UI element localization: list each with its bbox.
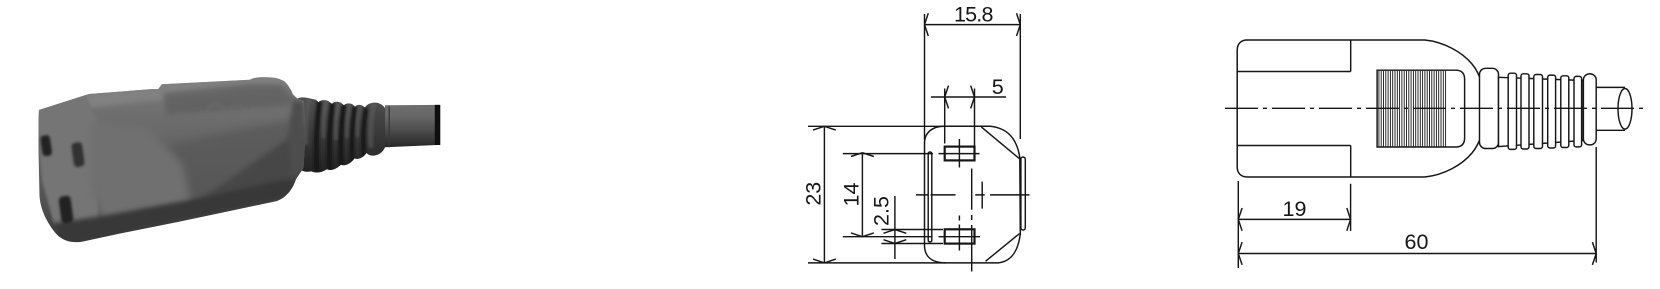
rib 4 xyxy=(1548,75,1556,148)
photo: lower-right dark region xyxy=(190,124,306,215)
photo: lower pin slot xyxy=(59,196,73,224)
dim 5 line xyxy=(931,96,1006,98)
dim 14 line xyxy=(861,153,863,237)
dim 23 extension lines (merge with top/bottom edges) xyxy=(808,126,946,263)
dim 23 line xyxy=(823,126,825,263)
photo: mid body lighter panel xyxy=(90,120,192,225)
outline: plug body side view xyxy=(1237,40,1485,177)
svg-text:19: 19 xyxy=(1283,197,1307,221)
rib 6 xyxy=(1574,76,1582,146)
centerline xyxy=(1225,107,1643,109)
dim 15.8 extension lines xyxy=(925,14,1021,140)
strain relief core xyxy=(1499,77,1584,146)
photo: top face highlight xyxy=(37,75,290,118)
svg-text:5: 5 xyxy=(992,75,1004,99)
svg-text:15.8: 15.8 xyxy=(954,2,993,26)
rib 2 xyxy=(1521,74,1529,149)
shroud step lines xyxy=(1237,72,1351,146)
pin column centerline xyxy=(958,139,960,251)
svg-text:60: 60 xyxy=(1405,230,1429,254)
photo: cable xyxy=(385,105,440,147)
photo: right-half darkening xyxy=(152,118,306,211)
photo: cable cut end xyxy=(435,105,441,145)
dim 60 right extension xyxy=(1595,147,1597,263)
horizontal centerline xyxy=(916,194,1030,196)
dim 5 extension lines xyxy=(945,89,975,147)
photo: relief ridge highlights xyxy=(306,99,374,148)
grip hatch area outline xyxy=(1377,70,1465,147)
dim 14 arrows xyxy=(851,153,874,237)
center mark stroke xyxy=(981,182,983,209)
dim 19 right extension xyxy=(1350,184,1352,231)
dim 15.8 line xyxy=(925,24,1021,26)
lower contact slot xyxy=(945,229,975,243)
dim 19/60 shared left extension xyxy=(1237,181,1239,268)
cable lines xyxy=(1596,87,1625,130)
photo: upper-left pin slot xyxy=(41,135,52,156)
rib 3 xyxy=(1534,75,1543,149)
end collar xyxy=(1583,74,1596,145)
outline: body front view xyxy=(925,126,1021,263)
dim 2.5 arrows xyxy=(884,230,907,244)
dim 5 arrows xyxy=(945,86,975,109)
dim 23 arrows xyxy=(813,126,836,263)
photo: molded logo marks on top xyxy=(208,104,264,119)
photo: hump front side shading xyxy=(163,84,293,115)
cable end ellipse xyxy=(1618,89,1632,130)
shroud step verticals xyxy=(1350,40,1352,177)
dim 2.5 line xyxy=(894,196,896,259)
2.5 extension lines xyxy=(881,230,943,244)
svg-text:23: 23 xyxy=(801,182,825,206)
right side tab xyxy=(1021,157,1025,230)
grip hatch lines xyxy=(1379,71,1446,147)
photo: bottom shadow band xyxy=(50,180,297,242)
svg-text:2.5: 2.5 xyxy=(869,196,893,226)
dim 15.8 arrows xyxy=(925,13,1021,36)
dim 60 line xyxy=(1238,253,1596,255)
photo: front face xyxy=(36,95,99,232)
dim 19 arrows xyxy=(1238,208,1350,231)
dim 19 line xyxy=(1238,218,1350,220)
svg-text:14: 14 xyxy=(839,183,863,207)
strain relief collar xyxy=(1480,68,1499,148)
photo: cable shadow at collar xyxy=(386,107,392,147)
rib 1 xyxy=(1508,73,1516,149)
slot centerline top xyxy=(843,153,980,155)
dim 60 arrows xyxy=(1238,242,1596,265)
photo: center pin slot xyxy=(72,142,85,167)
chamfer line top-right xyxy=(981,127,1019,159)
chamfer line bottom-right xyxy=(986,234,1020,262)
photo: right end shading xyxy=(288,100,306,178)
left side tab xyxy=(928,152,932,242)
photo: relief valleys xyxy=(316,101,366,172)
slot centerline bottom xyxy=(843,236,980,238)
vertical center axis xyxy=(971,169,973,272)
rib 5 xyxy=(1561,76,1569,148)
upper contact slot xyxy=(945,147,975,161)
